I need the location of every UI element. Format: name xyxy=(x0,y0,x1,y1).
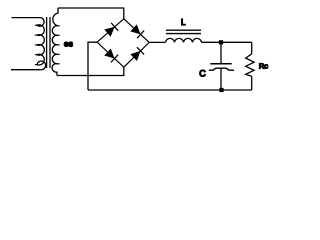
transformer core xyxy=(46,17,48,68)
secondary winding crossover ticks xyxy=(57,26,59,64)
diode D3 bottom-left xyxy=(104,49,118,63)
svg-text:C: C xyxy=(199,69,206,79)
diode D1 top-left xyxy=(104,23,118,37)
wire secondary top to bridge xyxy=(58,8,124,19)
bridge diamond edges xyxy=(97,19,149,67)
diode D2 top-right xyxy=(130,24,144,38)
svg-text:Rc: Rc xyxy=(259,61,268,70)
capacitor bottom lead xyxy=(220,68,222,90)
inductor L coil xyxy=(166,38,202,42)
capacitor top plate xyxy=(210,63,231,65)
transformer primary winding xyxy=(37,18,46,70)
wire bridge left vertex to bottom rail xyxy=(88,42,97,90)
wire top-left AC lead to primary xyxy=(12,17,41,19)
junction top (cap/rail) xyxy=(219,40,223,44)
inductor core bars xyxy=(166,29,201,31)
resistor zigzag xyxy=(246,54,254,77)
capacitor top lead xyxy=(220,42,222,64)
transformer secondary winding xyxy=(52,8,58,76)
primary winding crossover ticks xyxy=(35,25,37,64)
resistor bottom lead xyxy=(251,76,253,90)
svg-text:L: L xyxy=(181,18,186,27)
resistor Rc top lead xyxy=(251,42,253,54)
diode D4 bottom-right xyxy=(130,47,144,61)
wire bridge right vertex / top rail left part xyxy=(149,41,165,43)
junction bottom (cap/rail) xyxy=(219,88,223,92)
top rail right part xyxy=(202,41,252,43)
svg-text:es: es xyxy=(64,39,73,49)
wire secondary bottom to bridge xyxy=(57,67,124,75)
wire bottom-left AC lead from primary xyxy=(11,69,41,71)
bottom rail xyxy=(88,89,252,91)
capacitor curved plate xyxy=(209,68,234,70)
